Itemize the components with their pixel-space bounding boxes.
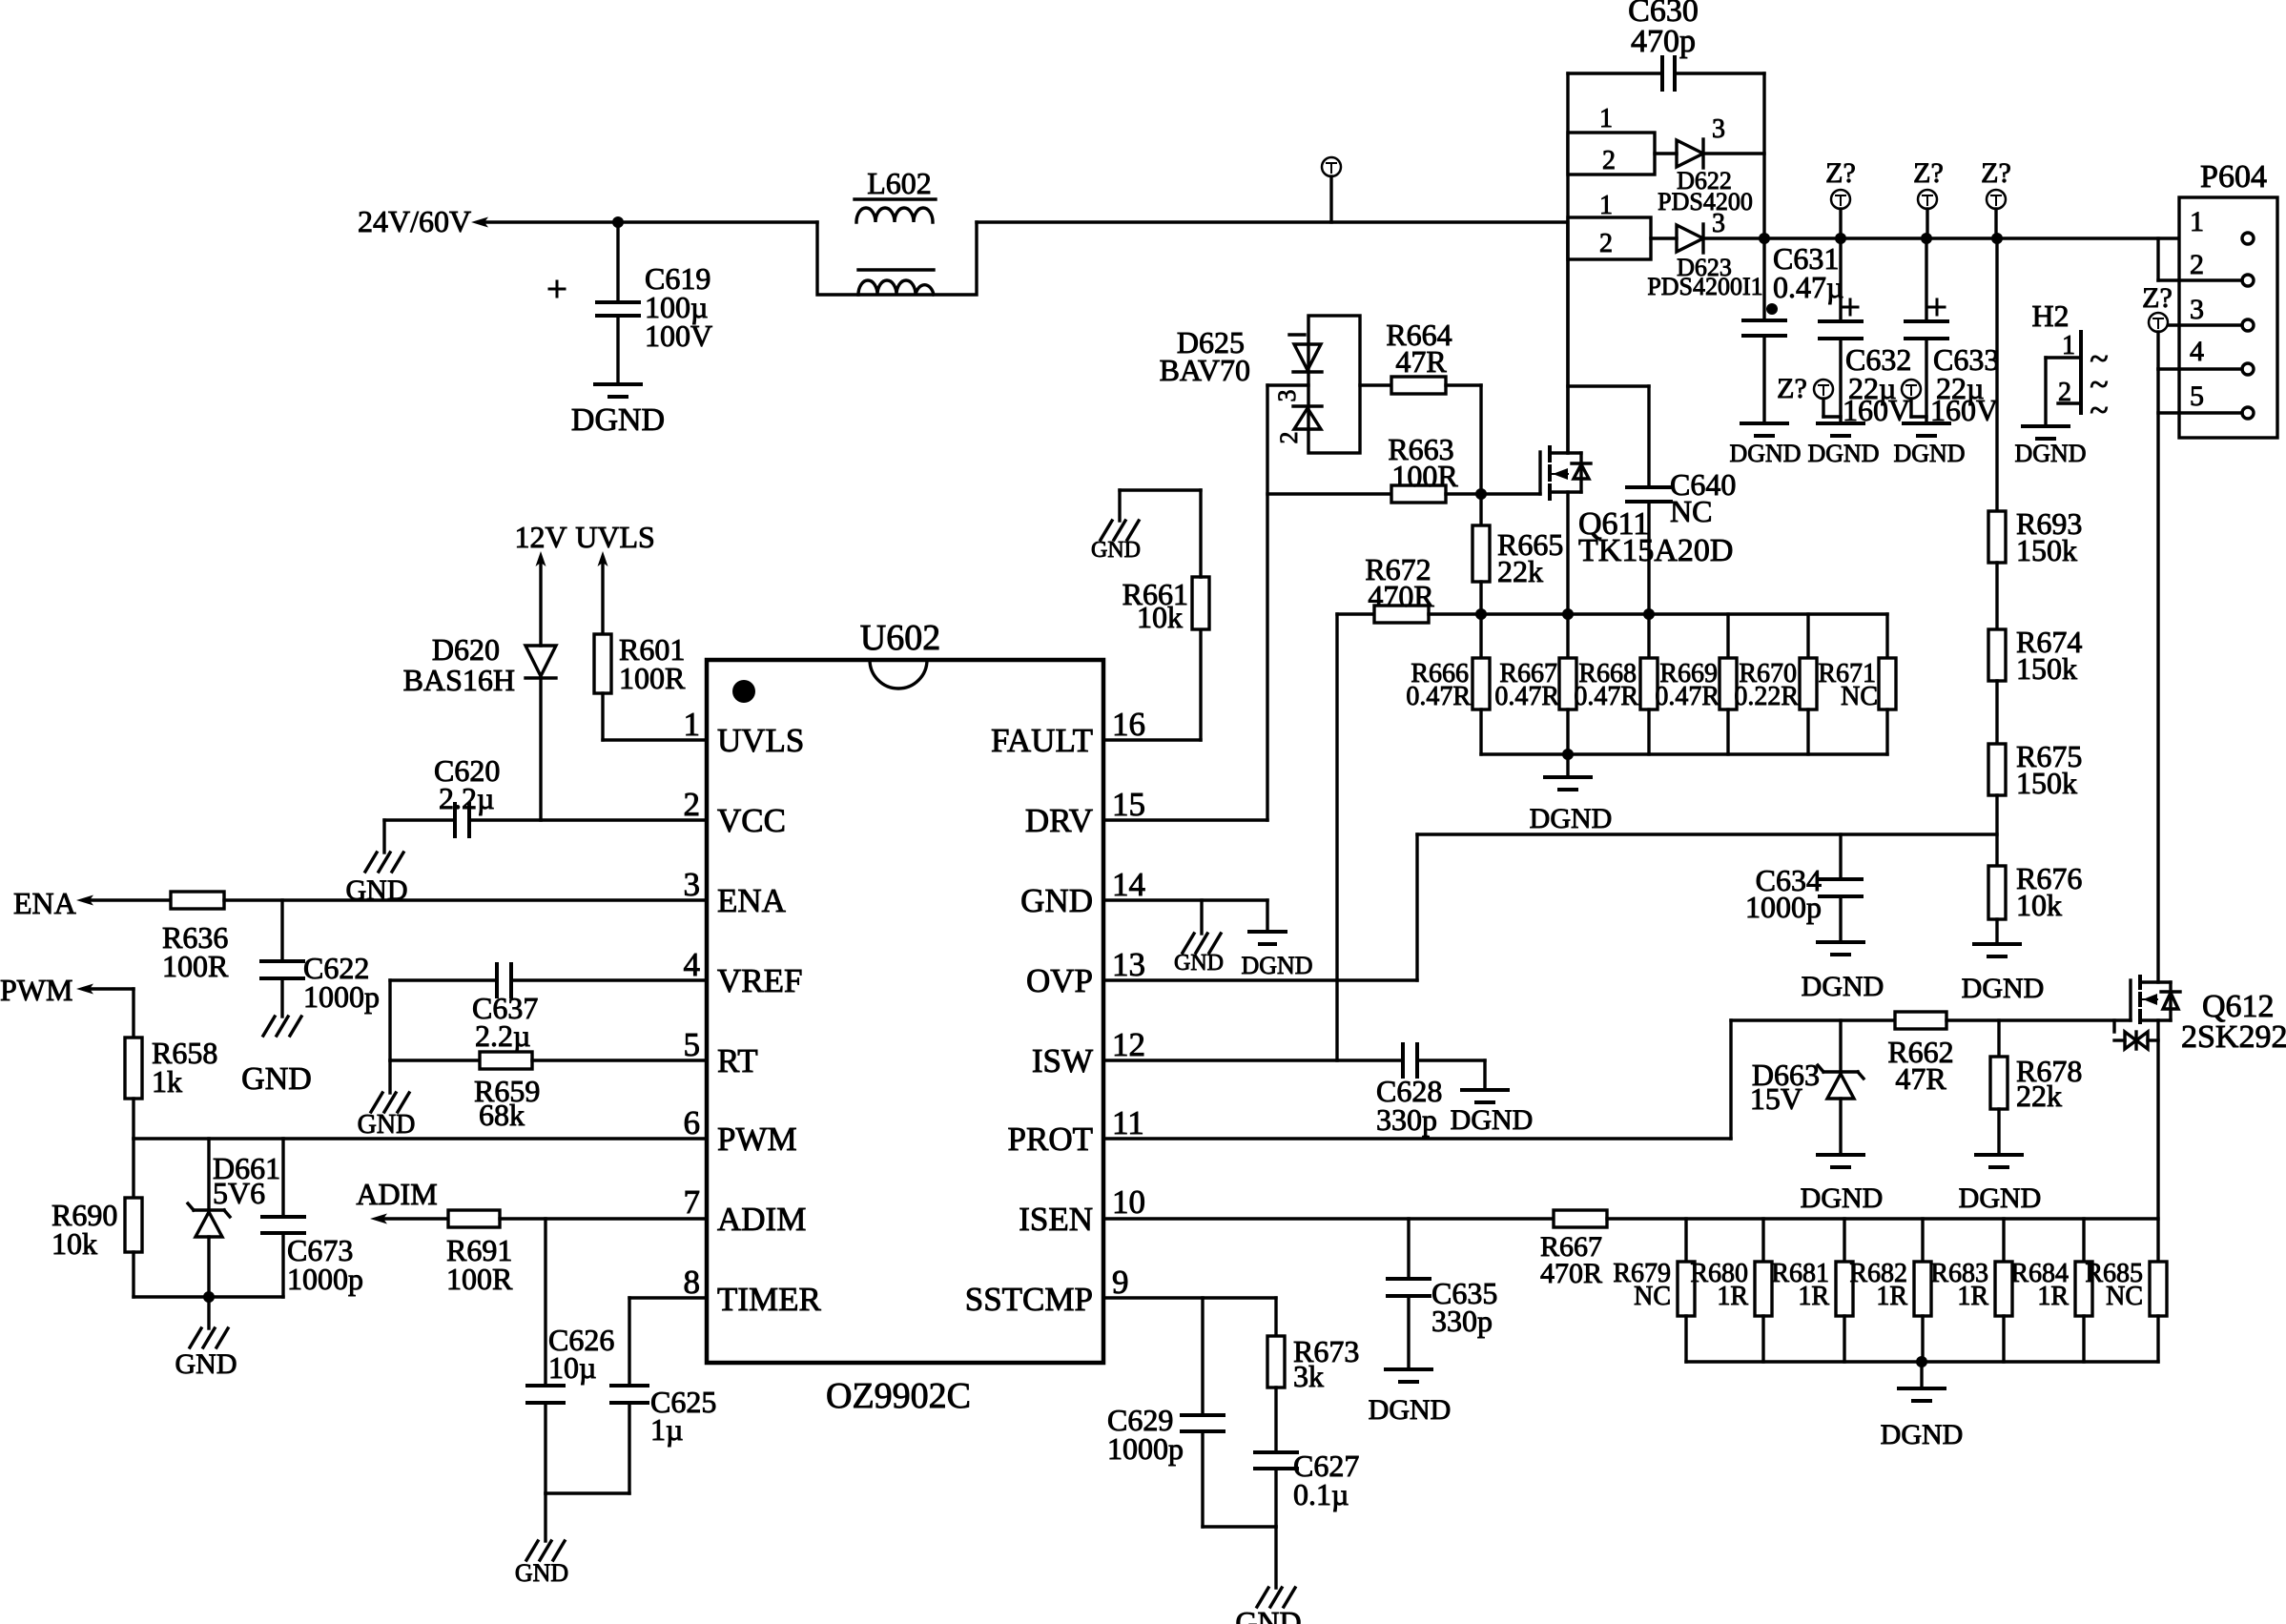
svg-text:100R: 100R: [1391, 459, 1458, 493]
svg-text:470p: 470p: [1631, 24, 1696, 59]
svg-text:2: 2: [1602, 146, 1616, 175]
wire PWM down: [90, 989, 134, 1038]
svg-text:NC: NC: [1670, 494, 1712, 528]
resistor R674 150k: [1988, 625, 2082, 686]
svg-text:1000p: 1000p: [1745, 890, 1822, 924]
svg-text:PDS4200I1: PDS4200I1: [1647, 273, 1762, 300]
svg-text:GND: GND: [358, 1110, 416, 1140]
resistor R668 0.47R: [1574, 614, 1658, 754]
svg-text:22k: 22k: [1497, 554, 1543, 588]
ground DGND under ISEN bus: [1881, 1362, 1964, 1450]
node UVLS input: [575, 520, 655, 634]
svg-text:ISW: ISW: [1032, 1042, 1093, 1079]
svg-text:2.2µ: 2.2µ: [439, 781, 494, 815]
capacitor C627 0.1µ: [1255, 1449, 1359, 1527]
svg-text:DGND: DGND: [1801, 1182, 1884, 1214]
resistor R680 1R: [1690, 1219, 1772, 1362]
svg-text:PWM: PWM: [0, 973, 72, 1007]
svg-text:Z?: Z?: [1825, 157, 1856, 189]
svg-text:8: 8: [684, 1264, 701, 1301]
svg-text:PWM: PWM: [717, 1120, 797, 1158]
resistor R685 NC: [2085, 1259, 2167, 1362]
resistor R684 1R: [2010, 1219, 2092, 1362]
svg-text:1µ: 1µ: [650, 1412, 683, 1447]
svg-text:1R: 1R: [1957, 1282, 1988, 1311]
diode D663 15V zener: [1750, 1020, 1864, 1155]
svg-text:Z?: Z?: [1777, 373, 1807, 404]
svg-text:0.1µ: 0.1µ: [1293, 1477, 1349, 1511]
wire R663 to Q611 gate: [1446, 492, 1540, 495]
junction gate node: [1475, 488, 1487, 500]
wire L602 to input node: [977, 220, 1568, 223]
ground GND at schematic bottom: [1235, 1588, 1301, 1624]
resistor R669 0.47R: [1655, 614, 1737, 754]
resistor R664 47R: [1386, 318, 1452, 394]
resistor R681 1R: [1771, 1219, 1853, 1362]
svg-text:~: ~: [2090, 391, 2108, 429]
resistor R670 0.22R: [1734, 614, 1817, 754]
svg-text:7: 7: [684, 1183, 701, 1221]
svg-text:P604: P604: [2200, 159, 2267, 195]
svg-text:BAV70: BAV70: [1160, 353, 1250, 387]
wire sense bottom bus: [1481, 752, 1887, 755]
svg-text:16: 16: [1112, 706, 1145, 743]
svg-text:NC: NC: [1841, 682, 1878, 711]
wire 24V/60V to L602: [484, 220, 817, 223]
svg-text:24V/60V: 24V/60V: [358, 204, 471, 238]
wire pins4/5 down to Q612 drain: [2156, 369, 2159, 982]
resistor R663 100R: [1267, 432, 1458, 503]
svg-text:OZ9902C: OZ9902C: [826, 1376, 971, 1416]
transistor Q611 TK15A20D: [1540, 447, 1733, 568]
svg-text:12V: 12V: [514, 520, 566, 554]
wire R674-R675: [1995, 681, 1998, 744]
svg-text:150k: 150k: [2016, 766, 2077, 800]
svg-text:47R: 47R: [1395, 344, 1447, 379]
svg-text:BAS16H: BAS16H: [403, 663, 515, 697]
resistor R672 470R: [1337, 552, 1434, 623]
svg-text:3: 3: [1273, 390, 1301, 402]
connector block CN1 (D622 input): [1568, 104, 1655, 175]
svg-text:Z?: Z?: [2142, 282, 2173, 314]
svg-text:ISEN: ISEN: [1019, 1201, 1093, 1238]
wire GND pin14: [1103, 900, 1267, 934]
svg-text:NC: NC: [1634, 1282, 1671, 1311]
svg-text:1k: 1k: [152, 1064, 182, 1099]
svg-text:14: 14: [1112, 866, 1145, 903]
resistor R666 0.47R: [1406, 614, 1490, 754]
svg-text:GND: GND: [175, 1348, 237, 1380]
connector block CN2 (D623 input): [1568, 191, 1651, 259]
wire sense bus: [1429, 612, 1887, 615]
svg-text:0.22R: 0.22R: [1734, 682, 1799, 711]
svg-text:OVP: OVP: [1026, 962, 1093, 999]
resistor R690 10k: [51, 1139, 142, 1297]
resistor R667 0.47R: [1494, 614, 1576, 754]
wire R693-R674: [1995, 563, 1998, 629]
ground DGND under C631: [1729, 423, 1801, 467]
svg-text:DGND: DGND: [1369, 1394, 1452, 1426]
svg-text:10k: 10k: [51, 1226, 97, 1261]
junction HV bus at R693: [1991, 233, 2003, 244]
svg-text:1R: 1R: [2037, 1282, 2069, 1311]
wire OVP pin13 to divider: [1103, 834, 1997, 980]
capacitor C629 1000p: [1107, 1298, 1224, 1527]
wire P604 pin3 stub: [2169, 323, 2242, 326]
svg-text:2: 2: [2190, 249, 2204, 280]
capacitor C630 470p: [1568, 0, 1764, 90]
junction HV bus at C632: [1835, 233, 1846, 244]
capacitor C619 100µ/100V electrolytic: [549, 222, 712, 384]
resistor R678 22k: [1990, 1020, 2082, 1155]
capacitor C640 NC: [1568, 386, 1736, 614]
node 24V/60V input: [358, 204, 488, 238]
svg-text:10k: 10k: [2016, 888, 2062, 922]
capacitor C620 2.2µ: [434, 753, 500, 836]
ground GND under R659: [358, 1093, 416, 1140]
svg-text:ADIM: ADIM: [356, 1177, 437, 1211]
svg-text:3: 3: [684, 866, 701, 903]
svg-text:SSTCMP: SSTCMP: [965, 1281, 1093, 1318]
svg-text:D620: D620: [432, 632, 500, 667]
svg-text:PDS4200: PDS4200: [1658, 188, 1753, 216]
svg-text:10: 10: [1112, 1183, 1145, 1221]
ground DGND under D663: [1801, 1155, 1884, 1214]
wire FAULT pin16 to R661: [1103, 629, 1201, 740]
svg-text:RT: RT: [717, 1042, 758, 1079]
ground GND under C626: [515, 1541, 568, 1587]
diode D622 PDS4200: [1655, 114, 1764, 216]
wire D625 pin3 to R664: [1360, 383, 1391, 386]
wire VCC pin2: [384, 820, 707, 853]
resistor R679 NC: [1613, 1219, 1695, 1362]
svg-text:12: 12: [1112, 1026, 1145, 1063]
svg-text:ADIM: ADIM: [717, 1201, 806, 1238]
svg-text:470R: 470R: [1368, 579, 1434, 613]
svg-text:DGND: DGND: [1802, 971, 1884, 1002]
svg-text:ENA: ENA: [717, 882, 787, 919]
wire R675 to OVP node: [1995, 795, 1998, 866]
ground GND above R661: [1091, 521, 1141, 563]
svg-text:0.47R: 0.47R: [1406, 682, 1471, 711]
svg-text:VREF: VREF: [717, 962, 802, 999]
resistor R693 150k: [1988, 506, 2082, 567]
svg-text:DGND: DGND: [1729, 440, 1801, 467]
capacitor C631 0.47µ: [1743, 238, 1843, 423]
connector P604: [2179, 159, 2277, 438]
capacitor C634 1000p: [1745, 834, 1862, 942]
capacitor C635 330p: [1388, 1219, 1497, 1369]
svg-text:PROT: PROT: [1008, 1120, 1093, 1158]
wire ISEN pin10: [1103, 1217, 1554, 1220]
wire timer caps join: [546, 1493, 629, 1541]
svg-text:L602: L602: [867, 166, 932, 200]
svg-text:GND: GND: [241, 1061, 312, 1097]
ground DGND under R676: [1962, 944, 2045, 1004]
svg-text:470R: 470R: [1540, 1258, 1602, 1289]
wire TIMER pin8: [629, 1298, 707, 1386]
resistor R636 100R: [162, 892, 229, 983]
op-amp U602 OZ9902C controller: [684, 618, 1146, 1416]
svg-text:9: 9: [1112, 1264, 1129, 1301]
wire Q611 source to sense bus: [1566, 492, 1569, 614]
wire top loop left vertical (drain node): [1566, 73, 1569, 453]
capacitor C622 1000p: [261, 900, 380, 1017]
node 12V input: [514, 520, 566, 646]
node Z? test point 1: [1825, 157, 1856, 238]
svg-text:DGND: DGND: [1241, 952, 1312, 979]
wire ISW pin12: [1103, 1059, 1403, 1061]
wire R691 to pin7: [500, 1217, 707, 1220]
svg-text:10k: 10k: [1137, 600, 1183, 634]
svg-text:0.47R: 0.47R: [1494, 682, 1559, 711]
ground DGND under C633: [1893, 423, 1965, 467]
wire HV bus to P604: [1764, 236, 2242, 239]
svg-text:1R: 1R: [1876, 1282, 1907, 1311]
svg-text:VCC: VCC: [717, 802, 786, 839]
svg-text:68k: 68k: [479, 1098, 525, 1132]
svg-text:1: 1: [1599, 104, 1613, 134]
resistor R659 68k: [390, 1052, 707, 1132]
svg-text:5: 5: [2190, 380, 2204, 412]
svg-text:100R: 100R: [446, 1262, 513, 1296]
ground GND left: [175, 1297, 237, 1380]
wire Q612 source to ISEN bus: [2156, 1020, 2159, 1262]
diode D661 5V6 zener: [188, 1139, 280, 1297]
svg-text:330p: 330p: [1431, 1304, 1493, 1338]
wire R636 to pin3: [224, 898, 707, 901]
svg-text:3: 3: [1712, 114, 1725, 144]
svg-text:6: 6: [684, 1104, 701, 1141]
ground DGND under sense bus: [1530, 754, 1613, 834]
svg-text:TIMER: TIMER: [717, 1281, 822, 1318]
svg-text:330p: 330p: [1376, 1102, 1437, 1137]
diode D620 BAS16H: [403, 632, 556, 820]
svg-text:0.47R: 0.47R: [1655, 682, 1720, 711]
wire R676 to ground: [1995, 919, 1998, 944]
capacitor C673 1000p: [262, 1139, 363, 1297]
resistor R676 10k: [1988, 861, 2082, 922]
ground GND at C620: [346, 853, 408, 906]
svg-text:DGND: DGND: [1530, 803, 1613, 834]
svg-text:4: 4: [684, 946, 701, 983]
svg-text:U602: U602: [860, 618, 940, 658]
capacitor C632 22µ/160V: [1820, 238, 1911, 427]
svg-text:0.47µ: 0.47µ: [1773, 270, 1843, 304]
svg-text:2.2µ: 2.2µ: [475, 1018, 530, 1053]
junction sense bottom bus: [1562, 749, 1574, 760]
svg-text:5V6: 5V6: [213, 1176, 265, 1210]
wire DRV pin15 riser: [1103, 385, 1267, 820]
svg-text:DGND: DGND: [1962, 973, 2045, 1004]
wire H2 to ground: [2044, 358, 2047, 426]
wire top loop right vertical: [1762, 73, 1765, 238]
svg-text:1000p: 1000p: [287, 1262, 363, 1296]
svg-text:2: 2: [1599, 229, 1613, 258]
diode D623 PDS4200I1: [1647, 209, 1764, 300]
svg-text:Z?: Z?: [1913, 157, 1944, 189]
wire VREF pin4: [390, 980, 707, 1060]
svg-text:22k: 22k: [2016, 1079, 2062, 1113]
svg-text:DRV: DRV: [1025, 802, 1093, 839]
wire ISEN bottom bus: [1686, 1360, 2158, 1363]
wire P604 pin2: [2158, 238, 2242, 280]
resistor R601 100R: [594, 632, 686, 695]
node Z? test point at P604: [2142, 282, 2173, 369]
svg-text:TK15A20D: TK15A20D: [1578, 533, 1733, 568]
resistor R675 150k: [1988, 739, 2082, 800]
svg-text:GND: GND: [1174, 951, 1224, 976]
svg-text:DGND: DGND: [1807, 440, 1879, 467]
connector H2: [2031, 298, 2108, 429]
ground DGND under C632: [1807, 423, 1879, 467]
svg-text:100V: 100V: [645, 319, 712, 353]
wire ISW riser to R672: [1335, 614, 1338, 1060]
resistor R662 47R: [1887, 1012, 1953, 1096]
svg-text:1: 1: [2190, 206, 2204, 237]
ground DGND under C634: [1802, 942, 1884, 1002]
svg-text:GND: GND: [1020, 882, 1093, 919]
svg-text:DGND: DGND: [1451, 1104, 1534, 1136]
resistor R691 100R: [446, 1210, 513, 1296]
svg-text:1000p: 1000p: [303, 979, 380, 1014]
junction sense bus at R665/R666: [1475, 608, 1487, 620]
ground DGND under C619: [571, 384, 665, 438]
diode gate TVS at Q612: [2114, 1020, 2158, 1049]
wire RT node to GND: [388, 1060, 391, 1093]
svg-text:1R: 1R: [1798, 1282, 1829, 1311]
resistor R683 1R: [1930, 1219, 2012, 1362]
wire R662 to Q612 gate: [1946, 1018, 2131, 1021]
resistor R671 NC: [1818, 614, 1896, 754]
capacitor C628 330p: [1376, 1044, 1485, 1137]
wire SSTCMP pin9: [1103, 1296, 1276, 1299]
wire P604 pin5: [2158, 411, 2242, 414]
svg-text:15: 15: [1112, 786, 1145, 823]
svg-text:DGND: DGND: [1881, 1419, 1964, 1450]
wire ADIM to R691: [383, 1217, 448, 1220]
wire left ground bus: [134, 1295, 283, 1298]
svg-text:3k: 3k: [1293, 1359, 1324, 1393]
svg-text:47R: 47R: [1895, 1061, 1946, 1096]
svg-text:Z?: Z?: [1981, 157, 2011, 189]
node ADIM input: [356, 1177, 437, 1224]
svg-text:GND: GND: [1091, 538, 1141, 563]
ground DGND under H2: [2014, 426, 2086, 467]
junction left ground bus: [203, 1291, 215, 1303]
junction HV bus at C633: [1921, 233, 1932, 244]
svg-text:4: 4: [2190, 336, 2204, 367]
diode D625 BAV70 dual: [1160, 316, 1360, 453]
ground DGND under C635: [1369, 1369, 1452, 1426]
wire C629/C627 join to GND: [1203, 1527, 1276, 1588]
ground GND under C622: [241, 1017, 312, 1097]
node T test point top: [1322, 157, 1341, 222]
junction C619 tap: [612, 216, 624, 228]
svg-text:DGND: DGND: [571, 402, 665, 438]
svg-text:UVLS: UVLS: [575, 520, 655, 554]
svg-text:2: 2: [1275, 432, 1303, 444]
wire R661 to GND: [1120, 490, 1201, 577]
capacitor C637 2.2µ: [472, 964, 538, 1053]
svg-text:1: 1: [684, 706, 701, 743]
resistor R665 22k: [1473, 494, 1563, 614]
svg-text:DGND: DGND: [1959, 1182, 2042, 1214]
node ENA input: [13, 886, 93, 920]
wire ENA to R636: [90, 898, 171, 901]
wire R601 to pin1: [603, 693, 707, 740]
resistor R673 3k: [1267, 1298, 1359, 1452]
svg-text:UVLS: UVLS: [717, 722, 804, 759]
svg-text:10µ: 10µ: [548, 1350, 596, 1385]
junction sense bus at Q611/R667: [1562, 608, 1574, 620]
transistor Q612 2SK2920: [2131, 976, 2286, 1055]
resistor R658 1k: [125, 1036, 217, 1099]
wire PROT pin11 to gate line: [1103, 1020, 1895, 1139]
svg-text:5: 5: [684, 1026, 701, 1063]
svg-text:100R: 100R: [162, 949, 229, 983]
junction HV bus at C631: [1759, 233, 1770, 244]
resistor R661 10k: [1122, 577, 1209, 634]
svg-text:1R: 1R: [1717, 1282, 1748, 1311]
inductor L602 common-mode choke: [817, 166, 977, 295]
ground DGND under R678: [1959, 1155, 2042, 1214]
resistor R682 1R: [1849, 1219, 1931, 1362]
svg-text:DGND: DGND: [2014, 440, 2086, 467]
svg-text:2: 2: [684, 786, 701, 823]
wire bus to R693: [1995, 238, 1998, 511]
svg-text:3: 3: [2190, 294, 2204, 325]
svg-text:2SK2920: 2SK2920: [2181, 1019, 2286, 1055]
svg-text:H2: H2: [2031, 298, 2069, 333]
resistor R667 470R: [1540, 1210, 1607, 1289]
ground GND at pin14: [1174, 934, 1224, 976]
svg-text:GND: GND: [1235, 1605, 1301, 1624]
ground DGND at C628: [1451, 1090, 1534, 1136]
junction sense bus at C640/R668: [1643, 608, 1655, 620]
svg-text:100R: 100R: [619, 661, 686, 695]
svg-text:ENA: ENA: [13, 886, 76, 920]
ground DGND at pin14: [1241, 932, 1312, 979]
svg-text:11: 11: [1112, 1104, 1144, 1141]
svg-text:13: 13: [1112, 946, 1145, 983]
wire ISEN bus right: [1607, 1217, 2158, 1220]
svg-text:DGND: DGND: [1893, 440, 1965, 467]
wire Q611 drain: [1566, 222, 1569, 453]
svg-text:1: 1: [1599, 191, 1613, 220]
svg-text:GND: GND: [515, 1559, 568, 1587]
wire P604 pin4: [2158, 367, 2242, 370]
svg-text:NC: NC: [2106, 1282, 2143, 1311]
capacitor C633 22µ/160V: [1905, 238, 1999, 427]
svg-text:150k: 150k: [2016, 533, 2077, 567]
svg-text:150k: 150k: [2016, 651, 2077, 686]
node PWM input: [0, 973, 93, 1007]
node Z? test point 2: [1913, 157, 1944, 238]
svg-text:1000p: 1000p: [1107, 1431, 1184, 1466]
svg-text:0.47R: 0.47R: [1574, 682, 1638, 711]
capacitor C625 1µ: [611, 1385, 716, 1493]
wire R664 to gate node: [1446, 385, 1481, 493]
capacitor C626 10µ: [527, 1219, 614, 1493]
node Z? test point at C632: [1777, 373, 1841, 417]
junction ISEN bottom bus: [1916, 1356, 1927, 1367]
node Z? test point 3: [1981, 157, 2011, 238]
svg-text:FAULT: FAULT: [991, 722, 1093, 759]
wire R658 to pin6: [134, 1099, 707, 1139]
svg-text:15V: 15V: [1750, 1081, 1802, 1116]
node T test point at C633: [1902, 380, 1926, 417]
